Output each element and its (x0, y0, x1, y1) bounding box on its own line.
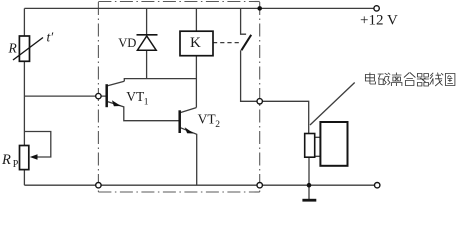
svg-text:2: 2 (215, 120, 220, 130)
svg-text:1: 1 (144, 98, 149, 108)
svg-text:R: R (8, 41, 18, 56)
svg-text:P: P (13, 159, 19, 170)
svg-text:t′: t′ (47, 30, 55, 45)
svg-text:VT: VT (198, 112, 217, 127)
svg-text:R: R (1, 152, 11, 168)
svg-text:+12 V: +12 V (360, 13, 398, 29)
svg-text:VD: VD (118, 36, 136, 50)
svg-text:K: K (190, 35, 201, 51)
svg-text:VT: VT (126, 89, 145, 104)
